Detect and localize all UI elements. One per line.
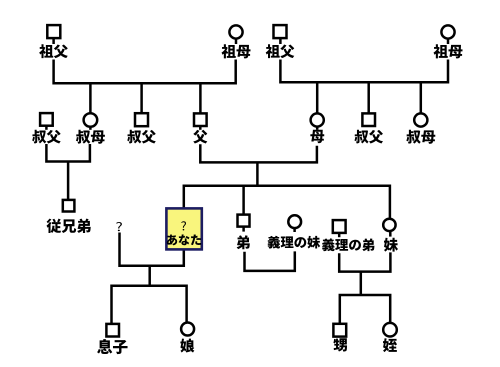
- label sofu-R: [266, 44, 295, 58]
- circle imouto (sister): [383, 219, 395, 231]
- wire drop to chichi: [199, 82, 202, 113]
- wire drop parents to sibling line: [256, 162, 259, 186]
- label oi: [333, 338, 347, 351]
- wire tick imouto: [389, 231, 392, 237]
- label sofu-L: [39, 44, 68, 58]
- wire tick oji-L1: [45, 126, 48, 130]
- circle sobo-R (grandmother): [441, 25, 454, 38]
- wire children sibling line: [112, 286, 187, 324]
- square oji-L2 (uncle): [135, 113, 148, 126]
- wire drop to oji-R: [367, 81, 370, 113]
- wire drop you-children: [148, 266, 151, 286]
- label itoko: [46, 219, 90, 233]
- label q-anata: [181, 221, 186, 230]
- wire q-anata marriage: [120, 233, 184, 266]
- label chichi: [193, 130, 207, 144]
- circle mei (niece): [383, 323, 397, 337]
- wire nephew sibling line: [340, 295, 390, 324]
- label oji-R: [354, 130, 383, 144]
- label haha: [310, 130, 324, 143]
- wire tick giri-imouto: [293, 228, 296, 232]
- square itoko (cousin): [63, 200, 75, 212]
- square otouto (brother): [238, 215, 250, 227]
- label oji-L2: [127, 130, 156, 144]
- square oji-R (uncle): [362, 113, 375, 126]
- square oi (nephew): [333, 324, 346, 337]
- wire tick sofu-R: [279, 38, 282, 44]
- circle haha (mother): [311, 113, 324, 126]
- wire tick sobo-R: [447, 38, 450, 44]
- square musuko (son): [106, 324, 119, 337]
- square giri-otouto (brother-in-law): [333, 220, 346, 233]
- label oji-L1: [32, 130, 61, 144]
- wire otouto marriage: [245, 251, 295, 271]
- label musume: [180, 339, 194, 353]
- circle musume (daughter): [181, 323, 194, 336]
- wire tick giri-otouto: [338, 233, 341, 238]
- square sofu-R (grandfather): [274, 25, 287, 38]
- label sobo-R: [434, 44, 463, 58]
- wire chichi-haha marriage: [200, 144, 317, 162]
- label giri-otouto: [322, 238, 374, 251]
- wire drop to otouto: [242, 186, 245, 215]
- wire tick oba-L: [89, 126, 92, 130]
- label imouto: [384, 238, 398, 252]
- wire grandparents-L marriage: [54, 60, 236, 84]
- wire tick otouto: [242, 226, 245, 231]
- circle oba-L (aunt): [84, 113, 98, 127]
- wire imouto marriage: [339, 252, 390, 271]
- wire drop to oji-L2: [140, 82, 143, 113]
- label mei: [383, 338, 397, 352]
- label oba-L: [76, 130, 105, 144]
- label musuko: [97, 339, 127, 354]
- square sofu-L (grandfather): [47, 25, 60, 38]
- wire drop to itoko: [67, 162, 70, 201]
- wire tick sobo-L: [235, 38, 238, 44]
- wire tick sofu-L: [52, 38, 55, 44]
- wire gen3 sibling line: [184, 186, 390, 219]
- square oji-L1 (uncle): [40, 113, 53, 126]
- circle sobo-L (grandmother): [229, 25, 242, 38]
- wire drop to haha: [316, 81, 319, 113]
- label giri-imouto: [268, 236, 320, 249]
- node anata (you) highlighted box: [166, 208, 201, 249]
- wire drop imouto-children: [360, 272, 363, 295]
- label anata: [167, 234, 201, 245]
- label otouto: [237, 235, 250, 249]
- square chichi (father): [194, 113, 207, 126]
- wire drop to oba-L: [89, 82, 92, 113]
- circle giri-imouto (sister-in-law): [288, 215, 301, 228]
- wire drop to oba-R: [420, 81, 423, 113]
- wire grandparents-R marriage: [280, 60, 448, 83]
- label q-spouse: [116, 222, 122, 231]
- circle oba-R (aunt): [414, 113, 427, 126]
- wire oji-oba marriage: [46, 144, 90, 162]
- label oba-R: [406, 130, 435, 144]
- wire tick haha: [316, 126, 319, 130]
- wire tick chichi: [199, 126, 202, 130]
- label sobo-L: [222, 44, 251, 58]
